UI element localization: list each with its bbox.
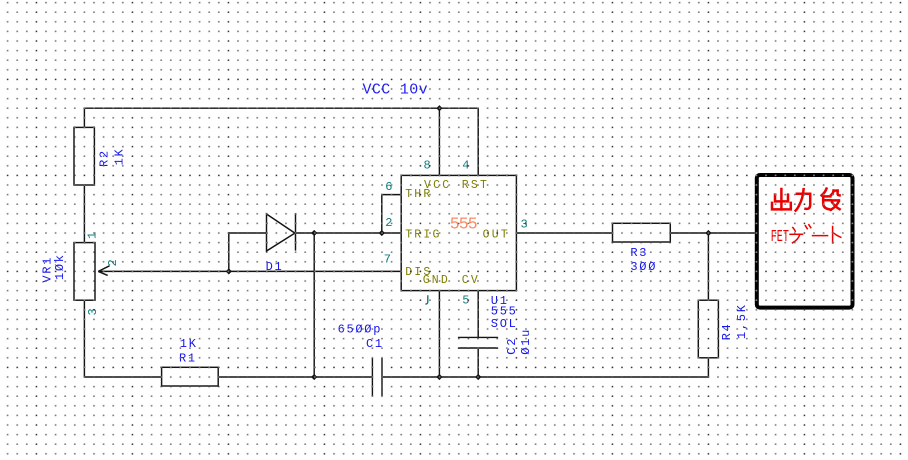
ト	[832, 227, 834, 244]
wire pin5 CV to C2	[477, 291, 479, 338]
wire bottom rail C1 to R4 bottom	[382, 376, 708, 378]
wire node B down to ground rail	[313, 233, 315, 377]
出	[780, 189, 783, 209]
wire R3 to output block	[670, 232, 755, 234]
wire VCC top rail	[84, 107, 478, 109]
capacitor C2 plates	[458, 337, 498, 348]
力	[797, 194, 810, 209]
wire VR1 wiper to DIS pin7	[98, 270, 401, 272]
diode D1	[267, 214, 296, 251]
wire THR branch pin6	[382, 195, 401, 233]
wire diode cathode to node B	[296, 232, 315, 234]
pin 1 of U1	[425, 295, 428, 304]
wire node A up to diode level	[228, 233, 230, 271]
output stage block frame	[757, 175, 853, 308]
potentiometer VR1 body	[74, 243, 95, 301]
resistor R3 body	[613, 223, 671, 242]
junction VCC rail / pin8	[436, 105, 442, 111]
ゲ	[793, 228, 796, 232]
wire node B to TRIG pin2	[314, 232, 401, 234]
resistor R1 body	[162, 367, 219, 386]
potentiometer VR1 wiper arrow	[98, 266, 109, 276]
junction node A wiper/diode	[226, 268, 232, 274]
kanji title 出力段 (output stage) drawn as strokes	[772, 189, 840, 211]
wire pin4 drop from VCC rail	[477, 108, 479, 175]
junction node C OUT/R4	[705, 230, 711, 236]
wire pin1 GND drop	[438, 291, 440, 377]
ー	[813, 235, 828, 237]
wire node C down to R4	[707, 233, 709, 300]
IC U1 555 timer body	[401, 175, 516, 290]
junction ground rail C2	[475, 374, 481, 380]
wire left rail to R2 top	[83, 108, 85, 127]
junction TRIG/THR branch	[379, 230, 385, 236]
resistor R4 body	[698, 300, 718, 358]
wire R4 bottom stub	[707, 358, 709, 377]
junction ground rail pin1	[436, 374, 442, 380]
capacitor C1 plates	[372, 358, 382, 396]
junction ground rail node B	[311, 374, 317, 380]
katakana ゲート drawn as strokes	[790, 225, 841, 243]
wire pin8 drop from VCC rail	[438, 108, 440, 175]
wire OUT pin3 to R3	[516, 232, 612, 234]
junction node B diode/TRIG	[311, 230, 317, 236]
段	[822, 189, 827, 196]
wire R2 bottom to VR1 top	[83, 185, 85, 243]
resistor R2 body	[74, 127, 94, 185]
wire bottom rail R1 to C1	[218, 376, 372, 378]
wire bottom rail left to R1	[84, 376, 161, 378]
wire C2 bottom to ground rail	[477, 348, 479, 377]
wire VR1 bottom to ground rail	[83, 300, 85, 377]
wire diode anode	[229, 232, 267, 234]
